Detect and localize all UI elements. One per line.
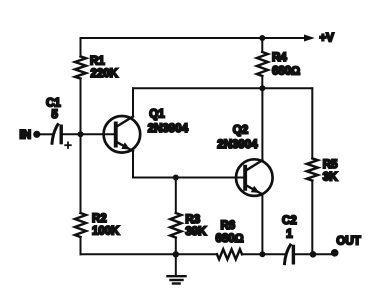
svg-text:R6: R6 bbox=[221, 220, 236, 232]
svg-text:2N3904: 2N3904 bbox=[148, 123, 189, 135]
wire left rail lower bbox=[80, 237, 82, 254]
capacitor C2 bbox=[285, 245, 294, 264]
node junction R3 top bbox=[173, 175, 179, 181]
resistor R6 bbox=[217, 249, 242, 259]
wire R4 top lead bbox=[261, 38, 263, 52]
resistor R5 bbox=[307, 158, 318, 180]
label R2 value bbox=[92, 213, 120, 237]
node junction Q2 emitter/rail bbox=[259, 251, 265, 257]
wire left rail upper bbox=[80, 38, 82, 57]
svg-text:2N3904: 2N3904 bbox=[217, 139, 258, 151]
svg-text:R5: R5 bbox=[323, 159, 338, 171]
svg-text:Q2: Q2 bbox=[233, 125, 248, 137]
+V arrow bbox=[304, 35, 315, 42]
resistor R2 bbox=[75, 213, 86, 237]
node IN terminal bbox=[33, 131, 40, 138]
svg-text:680Ω: 680Ω bbox=[272, 65, 300, 77]
wire R5 bottom lead bbox=[311, 181, 313, 255]
svg-text:1: 1 bbox=[286, 229, 293, 241]
wire top rail +V bbox=[81, 37, 307, 39]
node junction R4/Q2 collector bbox=[259, 85, 265, 91]
ground bbox=[168, 254, 186, 283]
node +V label bbox=[320, 32, 335, 44]
wire Q2 emitter drop bbox=[261, 194, 263, 254]
svg-text:220K: 220K bbox=[91, 68, 119, 80]
node junction ground bbox=[173, 251, 179, 257]
transistor Q1 bbox=[104, 116, 141, 153]
node junction top rail R4 bbox=[259, 35, 265, 41]
label R1 value bbox=[90, 56, 119, 80]
wire Q2 collector riser bbox=[261, 88, 263, 160]
label Q1 bbox=[148, 109, 189, 135]
wire C1 to base node bbox=[63, 133, 81, 135]
svg-text:3K: 3K bbox=[323, 172, 338, 184]
wire R5 top corner bbox=[311, 88, 313, 158]
svg-text:R3: R3 bbox=[185, 214, 200, 226]
svg-text:R4: R4 bbox=[272, 52, 287, 64]
wire IN to C1 bbox=[38, 133, 52, 135]
label R4 value bbox=[272, 52, 300, 77]
wire R4 bottom lead bbox=[261, 76, 263, 88]
svg-text:39K: 39K bbox=[185, 226, 207, 238]
node OUT terminal bbox=[331, 249, 339, 257]
svg-text:5: 5 bbox=[52, 109, 59, 121]
wire Q1 base bbox=[81, 133, 114, 135]
node junction C1/rail bbox=[78, 131, 84, 137]
svg-text:C1: C1 bbox=[46, 98, 61, 110]
label IN bbox=[20, 130, 32, 142]
wire left rail middle bbox=[80, 79, 82, 213]
wire R3 top lead bbox=[175, 178, 177, 214]
svg-text:IN: IN bbox=[20, 130, 32, 142]
wire emitter-to-base horizontal bbox=[133, 177, 243, 179]
svg-text:OUT: OUT bbox=[336, 236, 360, 248]
svg-text:100K: 100K bbox=[92, 226, 120, 238]
svg-text:+V: +V bbox=[320, 32, 335, 44]
wire C2 to OUT bbox=[295, 253, 335, 255]
label C1 value bbox=[46, 98, 61, 122]
resistor R3 bbox=[170, 213, 181, 238]
wire mid horizontal collector bus bbox=[133, 87, 312, 89]
wire R6 to C2 bbox=[242, 253, 284, 255]
svg-text:C2: C2 bbox=[282, 215, 297, 227]
wire Q1 collector riser bbox=[132, 88, 134, 116]
svg-text:Q1: Q1 bbox=[149, 109, 165, 121]
label C2 value bbox=[282, 215, 297, 241]
wire Q1 emitter drop bbox=[132, 151, 134, 178]
svg-text:680Ω: 680Ω bbox=[216, 233, 244, 245]
label C1 plus sign bbox=[65, 142, 71, 148]
transistor Q2 bbox=[236, 159, 273, 196]
resistor R1 bbox=[75, 57, 86, 79]
label R6 value bbox=[216, 220, 244, 245]
label OUT bbox=[336, 236, 360, 248]
label R5 value bbox=[323, 159, 338, 184]
label Q2 bbox=[217, 125, 258, 152]
resistor R4 bbox=[257, 52, 268, 76]
wire bottom rail left bbox=[81, 253, 218, 255]
svg-text:R2: R2 bbox=[92, 213, 107, 225]
svg-text:R1: R1 bbox=[90, 56, 105, 68]
capacitor C1 bbox=[52, 125, 61, 144]
node junction R5 bottom bbox=[310, 251, 317, 258]
label R3 value bbox=[185, 214, 207, 238]
wire R3 bottom lead bbox=[175, 238, 177, 255]
